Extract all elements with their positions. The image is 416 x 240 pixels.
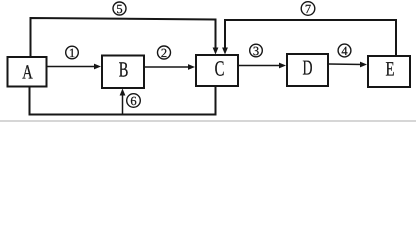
svg-text:D: D <box>303 56 313 80</box>
arrowhead into C top (7 path) <box>222 48 228 55</box>
block C <box>196 55 238 86</box>
svg-text:B: B <box>119 58 129 82</box>
wire B to C <box>145 66 191 68</box>
svg-text:6: 6 <box>130 94 136 108</box>
scan shadow bottom edge <box>0 120 416 122</box>
svg-text:5: 5 <box>116 2 122 16</box>
label 7 <box>301 2 315 16</box>
wire A to B <box>47 66 97 68</box>
label 2 <box>158 46 171 60</box>
svg-text:3: 3 <box>253 44 259 58</box>
block E <box>368 56 410 87</box>
block A <box>8 57 47 87</box>
arrowhead into D left <box>279 63 286 69</box>
block D <box>287 54 328 86</box>
arrowhead into E left <box>360 62 367 68</box>
wire feedback 5 path (A top, up, right, down into C top) <box>31 18 216 57</box>
label 1 <box>66 46 79 60</box>
svg-text:A: A <box>22 62 33 84</box>
label 4 <box>338 44 351 58</box>
wire C to D <box>239 65 282 67</box>
block B <box>102 56 144 89</box>
label 3 <box>250 44 263 58</box>
svg-text:E: E <box>386 59 395 81</box>
wire 6 branch (bottom line up into B bottom) <box>122 92 124 115</box>
arrowhead into B bottom <box>120 89 126 96</box>
arrowhead into B left <box>94 64 101 70</box>
label 6 <box>127 94 141 108</box>
wire D to E <box>329 63 363 66</box>
arrowhead into C top (5 path) <box>213 48 219 55</box>
wire bottom path (A bottom, down, right, up to C bottom) <box>30 87 216 115</box>
svg-text:7: 7 <box>305 2 311 16</box>
svg-text:2: 2 <box>161 46 167 60</box>
svg-text:C: C <box>215 57 225 81</box>
label 5 <box>113 2 126 16</box>
arrowhead into C left <box>188 64 195 70</box>
svg-text:1: 1 <box>69 46 75 60</box>
svg-text:4: 4 <box>341 44 348 58</box>
wire feedback 7 path (E top, up, left, down into C top) <box>225 20 396 56</box>
